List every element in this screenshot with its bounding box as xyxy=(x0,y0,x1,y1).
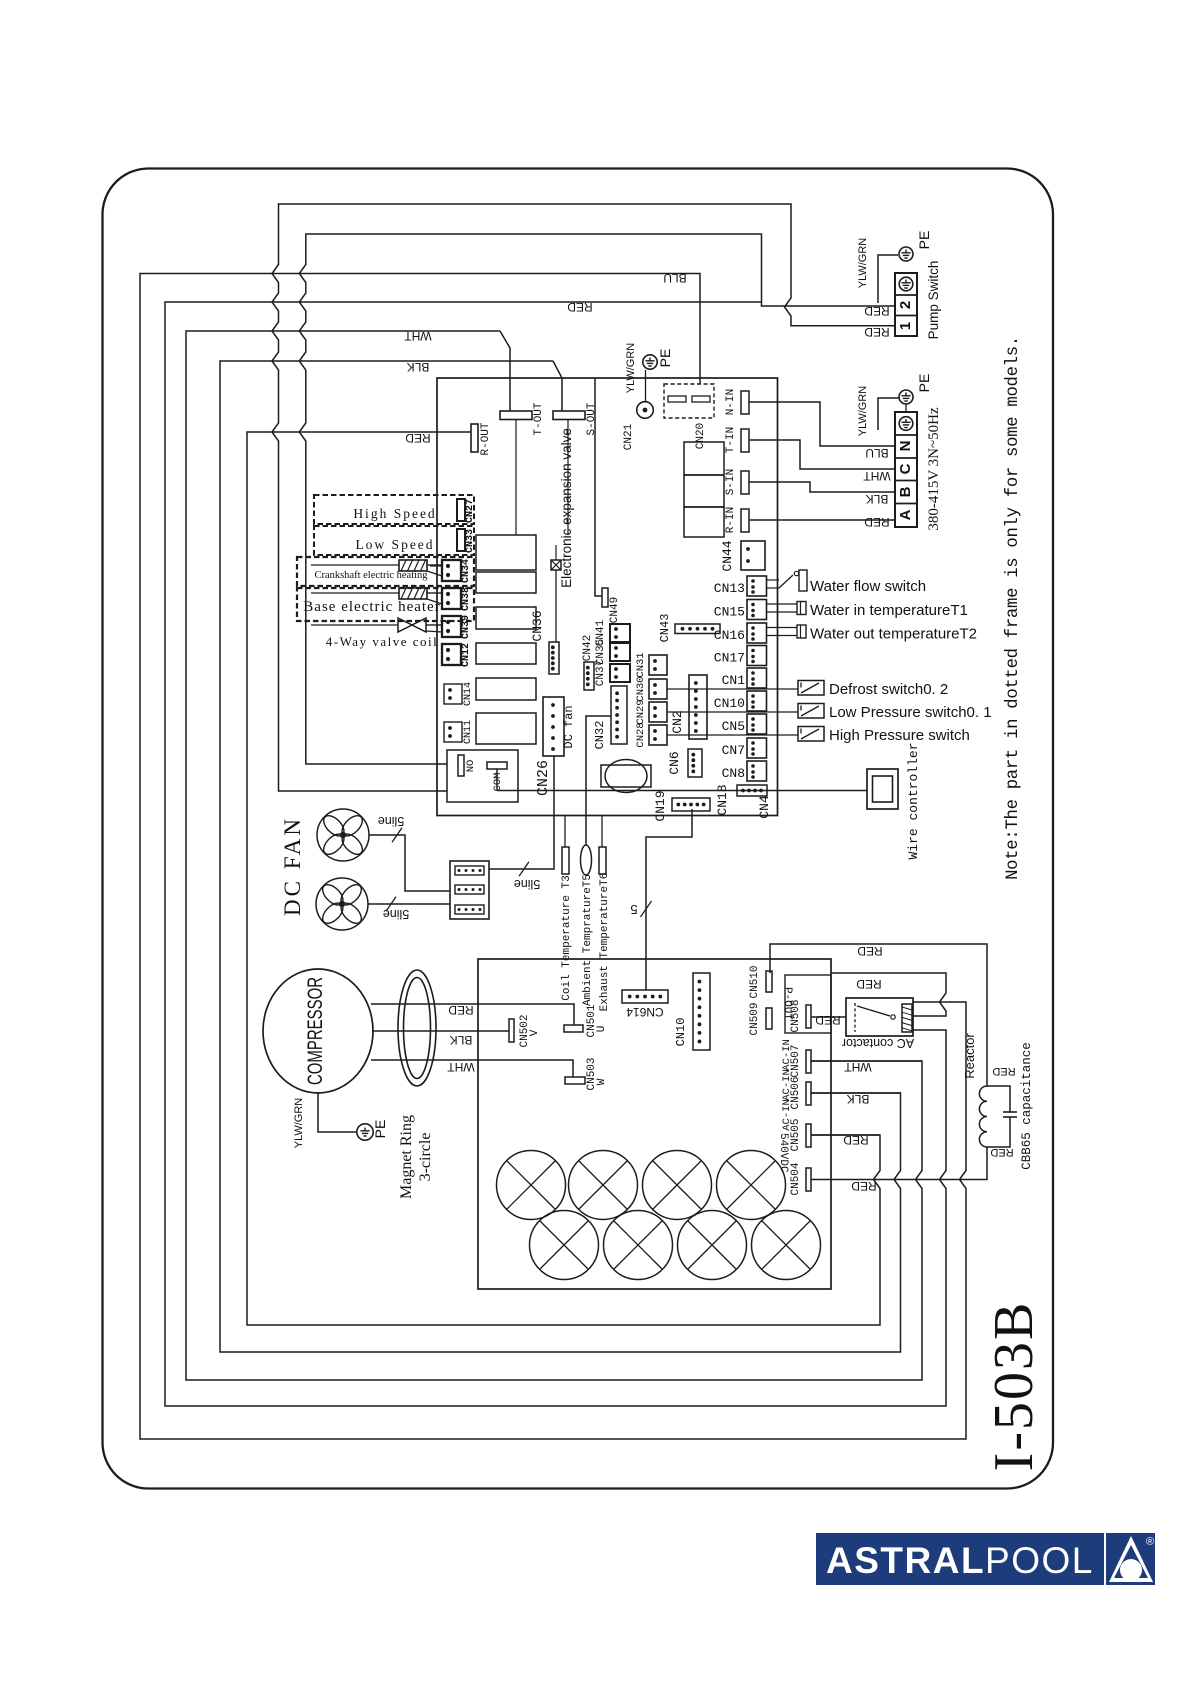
svg-text:U: U xyxy=(596,1026,608,1033)
svg-text:CN38: CN38 xyxy=(461,587,472,611)
svg-text:B: B xyxy=(897,486,914,497)
svg-text:I-503B: I-503B xyxy=(983,1301,1045,1472)
svg-text:CN49: CN49 xyxy=(609,597,621,623)
svg-text:Note:The part in dotted frame: Note:The part in dotted frame is only fo… xyxy=(1004,336,1023,880)
svg-text:CN5: CN5 xyxy=(722,719,745,734)
svg-text:S-OUT: S-OUT xyxy=(586,402,598,435)
svg-text:BLK: BLK xyxy=(450,1033,473,1047)
svg-text:5: 5 xyxy=(630,902,637,917)
svg-text:CN14: CN14 xyxy=(463,682,474,706)
svg-text:CN36: CN36 xyxy=(530,610,545,641)
svg-text:YLW/GRN: YLW/GRN xyxy=(857,238,869,289)
svg-text:CN510: CN510 xyxy=(749,965,761,998)
svg-text:C: C xyxy=(897,463,914,474)
svg-text:®: ® xyxy=(1146,1536,1154,1548)
svg-text:RED: RED xyxy=(843,1133,869,1147)
svg-text:CN37: CN37 xyxy=(595,660,607,686)
svg-text:S-IN: S-IN xyxy=(725,469,737,495)
svg-text:Reactor: Reactor xyxy=(962,1033,977,1079)
svg-text:DC FAN: DC FAN xyxy=(280,816,305,916)
svg-text:CN6: CN6 xyxy=(667,751,682,774)
svg-text:N-IN: N-IN xyxy=(725,389,737,415)
svg-text:BLK: BLK xyxy=(866,492,889,506)
svg-text:RED: RED xyxy=(856,977,882,991)
svg-text:CN18: CN18 xyxy=(715,784,730,815)
svg-text:PE: PE xyxy=(916,374,932,393)
svg-text:AC-IN: AC-IN xyxy=(781,1069,793,1101)
svg-text:PE: PE xyxy=(372,1120,388,1139)
svg-text:CN10: CN10 xyxy=(674,1018,688,1047)
svg-text:CN2: CN2 xyxy=(670,710,685,733)
svg-text:5line: 5line xyxy=(514,877,540,891)
svg-text:Water flow switch: Water flow switch xyxy=(810,578,926,595)
svg-text:WHT: WHT xyxy=(844,1060,872,1074)
svg-text:CBB65 capacitance: CBB65 capacitance xyxy=(1020,1042,1034,1170)
svg-text:CN30: CN30 xyxy=(635,676,647,701)
svg-text:COM: COM xyxy=(492,773,504,792)
svg-text:Wire controller: Wire controller xyxy=(906,742,921,859)
svg-text:PE: PE xyxy=(657,349,673,368)
svg-text:WHT: WHT xyxy=(447,1060,475,1074)
svg-text:5line: 5line xyxy=(378,814,404,828)
svg-text:CN42: CN42 xyxy=(582,635,594,661)
svg-text:Defrost switch0. 2: Defrost switch0. 2 xyxy=(829,681,948,698)
svg-text:CN19: CN19 xyxy=(653,790,668,821)
svg-text:YLW/GRN: YLW/GRN xyxy=(293,1098,305,1149)
svg-text:RED: RED xyxy=(992,1065,1015,1077)
svg-text:CN44: CN44 xyxy=(720,540,735,571)
svg-text:540VDC: 540VDC xyxy=(777,1133,789,1173)
svg-text:V: V xyxy=(529,1029,541,1036)
svg-text:CN26: CN26 xyxy=(535,760,552,796)
svg-text:3-circle: 3-circle xyxy=(417,1133,434,1182)
svg-text:CN4: CN4 xyxy=(757,795,772,819)
svg-text:BLU: BLU xyxy=(663,271,686,285)
svg-text:High Speed: High Speed xyxy=(353,506,436,521)
svg-text:CN34: CN34 xyxy=(461,559,472,583)
svg-text:WHT: WHT xyxy=(404,329,432,343)
svg-text:Magnet Ring: Magnet Ring xyxy=(398,1115,415,1199)
svg-text:CN10: CN10 xyxy=(714,696,745,711)
svg-text:NO: NO xyxy=(465,760,477,773)
svg-text:RED: RED xyxy=(864,304,890,318)
svg-text:T-OUT: T-OUT xyxy=(533,402,545,435)
svg-text:AC-IN: AC-IN xyxy=(781,1099,793,1131)
svg-text:RED: RED xyxy=(405,431,431,445)
svg-text:Electronic expansion valve: Electronic expansion valve xyxy=(559,428,574,588)
svg-text:380-415V 3N~50Hz: 380-415V 3N~50Hz xyxy=(926,407,942,531)
svg-text:YLW/GRN: YLW/GRN xyxy=(857,386,869,437)
svg-text:BLK: BLK xyxy=(407,360,430,374)
svg-text:Water out temperatureT2: Water out temperatureT2 xyxy=(810,626,977,643)
svg-text:CN504: CN504 xyxy=(790,1162,802,1195)
svg-text:A: A xyxy=(897,509,914,520)
svg-text:COMPRESSOR: COMPRESSOR xyxy=(304,977,327,1085)
svg-text:RED: RED xyxy=(990,1146,1013,1158)
svg-text:2: 2 xyxy=(897,301,914,309)
svg-text:CN20: CN20 xyxy=(695,423,707,449)
svg-text:BLK: BLK xyxy=(847,1092,870,1106)
svg-text:CN31: CN31 xyxy=(635,652,647,677)
svg-text:CN8: CN8 xyxy=(722,766,745,781)
svg-text:Low Speed: Low Speed xyxy=(355,537,434,552)
svg-text:RED: RED xyxy=(815,1013,841,1027)
svg-text:1: 1 xyxy=(897,322,914,330)
svg-text:CN12: CN12 xyxy=(461,643,472,667)
svg-text:High Pressure switch: High Pressure switch xyxy=(829,727,970,744)
svg-text:RED: RED xyxy=(864,515,890,529)
svg-text:CN16: CN16 xyxy=(714,628,745,643)
svg-text:CN509: CN509 xyxy=(749,1002,761,1035)
svg-text:Low Pressure switch0. 1: Low Pressure switch0. 1 xyxy=(829,704,992,721)
svg-text:CN508: CN508 xyxy=(790,999,802,1032)
svg-text:CN29: CN29 xyxy=(635,699,647,724)
svg-text:N: N xyxy=(897,441,914,452)
svg-text:CN17: CN17 xyxy=(714,651,745,666)
svg-text:Base electric heater: Base electric heater xyxy=(303,599,440,615)
svg-text:RED: RED xyxy=(864,325,890,339)
svg-text:CN27: CN27 xyxy=(465,499,476,523)
svg-text:CN614: CN614 xyxy=(626,1005,664,1019)
svg-text:RED: RED xyxy=(851,1179,877,1193)
svg-text:R-IN: R-IN xyxy=(725,507,737,533)
svg-text:CN7: CN7 xyxy=(722,743,745,758)
svg-text:R-OUT: R-OUT xyxy=(480,422,492,455)
svg-text:AC contactor: AC contactor xyxy=(842,1036,914,1050)
svg-text:5line: 5line xyxy=(383,907,409,921)
svg-text:CN33: CN33 xyxy=(465,529,476,553)
svg-text:CN1: CN1 xyxy=(722,673,746,688)
svg-text:CN13: CN13 xyxy=(714,581,745,596)
svg-text:RED: RED xyxy=(567,300,593,314)
svg-text:Exhaust TemperatureT6: Exhaust TemperatureT6 xyxy=(599,873,611,1012)
svg-text:Pump Switch: Pump Switch xyxy=(926,261,941,340)
svg-text:CN15: CN15 xyxy=(714,605,745,620)
svg-text:RED: RED xyxy=(448,1003,474,1017)
svg-text:Ambient TempratureT5: Ambient TempratureT5 xyxy=(582,874,594,1006)
svg-text:YLW/GRN: YLW/GRN xyxy=(625,343,637,394)
svg-text:AC-IN: AC-IN xyxy=(781,1039,793,1071)
svg-text:CN11: CN11 xyxy=(463,720,474,744)
svg-text:4-Way valve coil: 4-Way valve coil xyxy=(326,634,438,649)
svg-text:CN43: CN43 xyxy=(658,614,672,643)
svg-text:BLU: BLU xyxy=(865,446,888,460)
svg-text:DC fan: DC fan xyxy=(562,705,576,748)
svg-text:W: W xyxy=(596,1078,608,1085)
svg-text:T-IN: T-IN xyxy=(725,427,737,453)
svg-text:Coil Temperature T3: Coil Temperature T3 xyxy=(561,875,573,1000)
svg-text:CN21: CN21 xyxy=(623,423,635,450)
svg-text:Water in temperatureT1: Water in temperatureT1 xyxy=(810,602,968,619)
svg-text:CN39: CN39 xyxy=(461,615,472,639)
svg-text:ASTRALPOOL: ASTRALPOOL xyxy=(826,1540,1094,1581)
svg-text:RED: RED xyxy=(857,944,883,958)
svg-text:WHT: WHT xyxy=(863,469,891,483)
svg-text:PE: PE xyxy=(916,231,932,250)
svg-text:CN32: CN32 xyxy=(593,721,607,750)
svg-text:CN28: CN28 xyxy=(635,722,647,747)
